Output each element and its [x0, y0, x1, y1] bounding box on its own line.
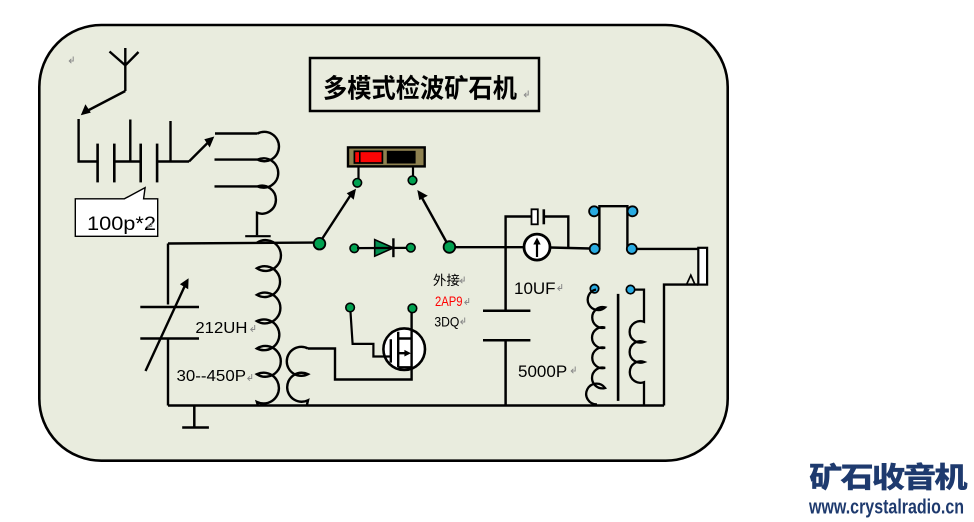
- tuning coil L2 212UH: [257, 240, 281, 405]
- svg-text:10UF: 10UF: [514, 279, 556, 298]
- transistor internals: [391, 332, 412, 368]
- transformer primary winding: [586, 290, 605, 405]
- capacitor C1 plate: [96, 144, 99, 183]
- svg-text:3DQ: 3DQ: [434, 314, 459, 330]
- capacitor C3 negative plate: [542, 209, 545, 224]
- svg-text:30--450P: 30--450P: [177, 368, 247, 385]
- external detector terminal block: [348, 147, 425, 166]
- earphone jack plug: [698, 248, 707, 285]
- coupling coil L1: [215, 132, 279, 235]
- wire node D to meter: [455, 246, 525, 248]
- capacitor C1 plate: [113, 144, 116, 183]
- transformer core: [617, 294, 620, 401]
- bottom rail wire: [168, 404, 664, 407]
- site logo: [810, 462, 968, 490]
- capacitor C2 plate: [156, 144, 159, 183]
- phone terminal frame: [599, 206, 627, 249]
- node C (detector select left): [314, 238, 326, 250]
- diode D1: [357, 238, 406, 257]
- transformer secondary winding: [630, 290, 644, 406]
- diode terminal node right: [407, 243, 416, 252]
- wire C1 to C2 with tap post: [114, 120, 140, 162]
- title box: [310, 58, 539, 111]
- svg-text:5000P: 5000P: [518, 362, 567, 381]
- transistor drain terminal node: [408, 304, 417, 313]
- wire C2 to switch arm with tap post: [157, 121, 189, 162]
- transistor Q1 body: [383, 328, 425, 370]
- feedback winding L3: [287, 347, 308, 405]
- transformer primary node: [590, 285, 598, 293]
- gate lead wire: [351, 312, 391, 357]
- capacitor C4 5000P: [483, 247, 530, 405]
- svg-text:www.crystalradio.cn: www.crystalradio.cn: [808, 497, 964, 519]
- capacitor C2 plate: [139, 144, 142, 183]
- terminal node B: [408, 176, 417, 185]
- svg-text:212UH: 212UH: [195, 320, 247, 337]
- capacitor C3 10UF positive plate: [532, 209, 538, 224]
- paragraph mark after title: [524, 91, 528, 98]
- switch arm left with arrow: [322, 189, 356, 239]
- variable capacitor 30--450P: [140, 244, 199, 406]
- transistor source arrow: [404, 350, 411, 357]
- meter M1: [524, 234, 550, 260]
- jack tip triangle: [687, 275, 696, 284]
- antenna lead wire with arrow: [81, 91, 126, 115]
- transformer secondary node: [626, 285, 634, 293]
- wire antenna down: [79, 119, 98, 162]
- diode terminal node left: [350, 244, 359, 253]
- switch arm right with arrow: [417, 190, 447, 243]
- terminal node A: [353, 179, 362, 188]
- phone terminal node bottom-right: [627, 244, 637, 254]
- callout 100p*2: [75, 188, 157, 237]
- wire to earphone jack: [637, 248, 698, 250]
- wire tank top: [168, 241, 314, 244]
- paragraph mark top-left: [69, 57, 73, 64]
- label waijie (external): [433, 274, 459, 286]
- svg-text:2AP9: 2AP9: [435, 293, 463, 309]
- antenna: [110, 48, 139, 91]
- svg-text:100p*2: 100p*2: [87, 213, 156, 235]
- node D (detector select right): [444, 241, 456, 253]
- variable capacitor arrow: [146, 278, 189, 371]
- block terminal stub right: [412, 166, 414, 176]
- phone terminal node bottom-left: [590, 244, 600, 254]
- jack return wire: [664, 285, 698, 406]
- schematic panel background: [39, 25, 727, 461]
- wire meter to phone terminals: [550, 248, 590, 249]
- switch arm to coil with arrow: [189, 137, 214, 162]
- block terminal stub left: [357, 166, 359, 179]
- 10UF capacitor loop: [506, 217, 569, 248]
- coil L1 bottom terminal bar: [245, 235, 271, 237]
- transistor gate terminal node: [346, 303, 355, 312]
- ground: [182, 406, 209, 428]
- phone terminal node top-right: [628, 206, 638, 216]
- source lead wire: [308, 313, 412, 380]
- phone terminal node top-left: [589, 206, 599, 216]
